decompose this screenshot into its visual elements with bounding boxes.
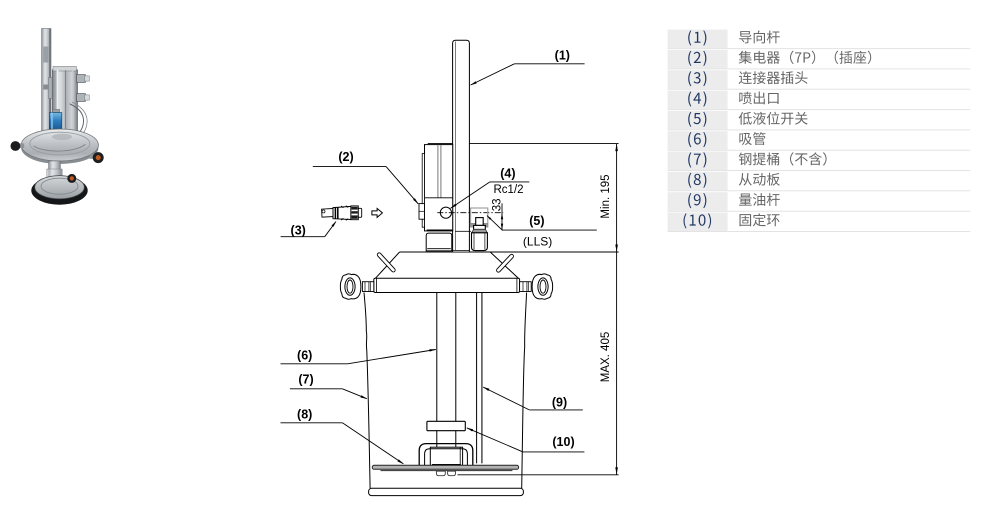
extension line pump top: [428, 143, 619, 145]
dimension line Min.195 / MAX.405: [616, 144, 618, 475]
photo guide rod: [42, 29, 51, 135]
parts table: [668, 30, 971, 232]
insert arrow symbol: [372, 208, 383, 217]
photo drum lid: [21, 132, 98, 164]
follower handle outer: [419, 444, 473, 466]
connector plug (3): [322, 206, 362, 220]
steel pail left wall (7): [364, 293, 370, 489]
svg-text:Min. 195: Min. 195: [600, 174, 612, 218]
photo cables: [65, 104, 84, 142]
pump body inner stripe: [437, 145, 439, 197]
svg-text:(6): (6): [297, 348, 312, 362]
drum lid dome left slant: [375, 252, 399, 278]
pump base block: [426, 233, 452, 251]
dim 33 line: [501, 203, 503, 230]
follower handle inner: [425, 449, 468, 466]
svg-text:(1): (1): [555, 48, 570, 62]
outlet circle (4) Rc1/2: [440, 207, 451, 218]
svg-text:(7): (7): [298, 373, 313, 387]
lid handle rod left: [377, 252, 396, 273]
svg-text:(5): (5): [529, 214, 544, 228]
photo base knob: [67, 174, 76, 183]
svg-text:(2): (2): [338, 150, 353, 164]
table row (7) 钢提桶（不含）: [668, 152, 728, 171]
steel pail right wall: [522, 293, 527, 489]
svg-text:33: 33: [491, 199, 503, 212]
pail bottom chime: [369, 488, 524, 495]
table row (10) 固定环: [668, 213, 728, 232]
pump bottom lines: [427, 229, 453, 231]
table row (6) 吸管: [668, 131, 728, 150]
fixing ring (10): [427, 421, 465, 430]
product photo: [11, 29, 104, 205]
table row (1) 导向杆: [668, 30, 728, 48]
svg-text:(LLS): (LLS): [523, 235, 552, 249]
wing knob left: [340, 274, 361, 299]
photo pump body: [48, 78, 52, 99]
table row (9) 量油杆: [668, 192, 728, 211]
lid flange band: [374, 278, 520, 292]
photo pedestal column: [49, 161, 61, 191]
table row (3) 连接器插头: [668, 70, 728, 89]
table row (4) 喷出口: [668, 91, 728, 110]
table row (2) 集电器（7P）（插座）: [668, 50, 728, 69]
svg-text:Rc1/2: Rc1/2: [494, 184, 524, 196]
extension line follower plate bottom: [458, 474, 619, 476]
table row (8) 从动板: [668, 172, 728, 191]
tube stub below ring: [436, 431, 438, 447]
LLS flange: [472, 229, 488, 232]
svg-text:(10): (10): [552, 435, 574, 449]
svg-text:(4): (4): [500, 167, 515, 181]
extension line lid level / lid plateau: [400, 251, 619, 253]
follower plate check valves: [436, 471, 445, 476]
follower plate (8): [372, 465, 518, 469]
photo lid clamp knob left: [19, 143, 24, 148]
photo base disc: [31, 176, 87, 204]
dim 33 leader diagonal: [487, 216, 503, 231]
photo blue valve: [53, 109, 60, 113]
LLS bracket: [471, 208, 488, 227]
drum lid dome right slant: [490, 252, 518, 278]
lid handle rod right: [496, 254, 514, 273]
table row (5) 低液位开关: [668, 111, 728, 129]
collector socket (2): [419, 204, 425, 220]
pump body: [425, 145, 453, 231]
low level switch body (5): [472, 233, 488, 251]
pump body section line: [425, 197, 453, 199]
svg-text:MAX. 405: MAX. 405: [600, 332, 612, 383]
photo lid clamp knob right: [90, 154, 97, 159]
flange bushing right: [520, 282, 532, 292]
outlet centerline: [437, 212, 503, 214]
pump body left plate: [422, 154, 424, 228]
svg-text:(8): (8): [297, 408, 312, 422]
svg-text:(9): (9): [552, 395, 567, 409]
wing knob right: [532, 274, 553, 299]
guide rod (1): [453, 40, 470, 251]
suction tube (6): [436, 293, 438, 422]
flange bushing left: [362, 282, 373, 292]
dipstick (9): [476, 293, 478, 464]
svg-text:(3): (3): [291, 223, 306, 237]
photo connector fittings: [77, 75, 86, 83]
follower hub box: [430, 447, 462, 465]
LLS bolt: [476, 218, 484, 226]
